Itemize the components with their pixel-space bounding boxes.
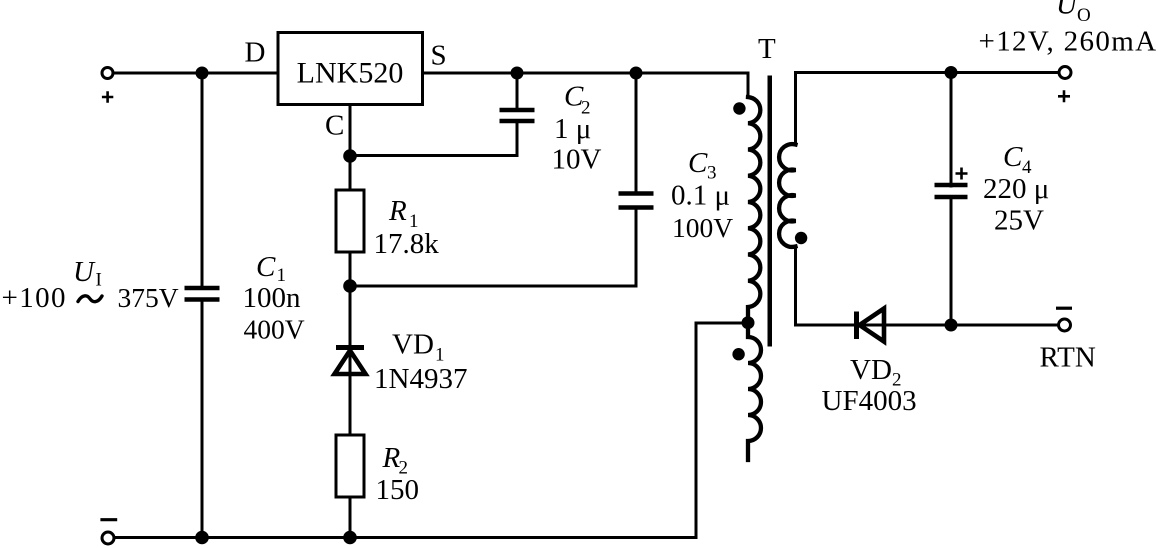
svg-text:U: U: [73, 256, 96, 288]
svg-text:100V: 100V: [672, 212, 733, 243]
svg-text:25V: 25V: [994, 205, 1044, 237]
svg-text:R: R: [388, 195, 407, 227]
svg-text:LNK520: LNK520: [297, 57, 404, 90]
svg-text:+12V, 260mA: +12V, 260mA: [979, 26, 1158, 58]
svg-text:T: T: [758, 33, 776, 65]
svg-text:VD: VD: [392, 329, 434, 361]
svg-text:VD: VD: [850, 354, 892, 386]
svg-text:C: C: [688, 147, 708, 179]
svg-text:C: C: [1003, 141, 1023, 173]
svg-text:U: U: [1056, 0, 1079, 21]
svg-text:100n: 100n: [243, 282, 302, 314]
svg-text:0.1 μ: 0.1 μ: [671, 180, 730, 212]
svg-text:D: D: [245, 37, 266, 69]
svg-text:UF4003: UF4003: [822, 385, 917, 417]
svg-text:400V: 400V: [244, 314, 305, 345]
svg-text:150: 150: [376, 474, 420, 506]
svg-text:17.8k: 17.8k: [374, 228, 440, 260]
svg-text:C: C: [325, 110, 344, 142]
svg-text:C: C: [256, 251, 276, 283]
svg-text:+100: +100: [2, 282, 67, 314]
svg-text:I: I: [96, 270, 102, 291]
svg-text:1N4937: 1N4937: [374, 363, 467, 395]
svg-text:10V: 10V: [552, 144, 602, 176]
svg-text:O: O: [1077, 5, 1091, 26]
svg-text:220 μ: 220 μ: [983, 173, 1049, 205]
svg-text:S: S: [431, 40, 447, 72]
svg-text:1 μ: 1 μ: [554, 113, 591, 145]
svg-text:375V: 375V: [118, 282, 179, 313]
svg-text:RTN: RTN: [1040, 342, 1096, 374]
